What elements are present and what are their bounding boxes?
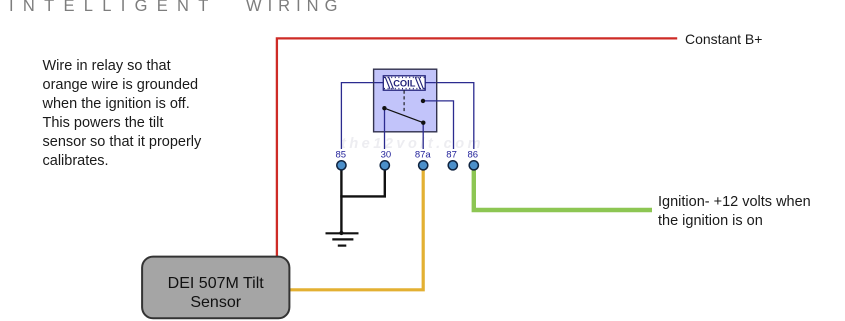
svg-text:87: 87 xyxy=(446,150,457,161)
svg-text:INTELLIGENT: INTELLIGENT xyxy=(9,0,218,15)
wire navy coil horizontal inside relay xyxy=(374,82,436,84)
svg-text:This powers the tilt: This powers the tilt xyxy=(43,115,164,131)
wire navy coil left to pin 85 xyxy=(341,83,374,149)
contact dot pin 87a xyxy=(421,121,425,125)
svg-text:WIRING: WIRING xyxy=(246,0,343,15)
svg-text:30: 30 xyxy=(381,150,392,161)
svg-text:Constant B+: Constant B+ xyxy=(685,31,762,47)
wire yellow 87a to sensor xyxy=(289,168,423,290)
svg-text:Ignition- +12 volts when: Ignition- +12 volts when xyxy=(658,194,811,210)
wire navy pin 30 riser xyxy=(384,108,386,149)
contact dot pin 87 xyxy=(421,99,425,103)
svg-text:orange wire is grounded: orange wire is grounded xyxy=(43,77,199,93)
svg-text:calibrates.: calibrates. xyxy=(43,153,109,169)
label DEI 507M Tilt Sensor xyxy=(168,275,265,311)
relay box U1 xyxy=(374,69,437,132)
label Ignition +12 volts xyxy=(658,194,811,229)
svg-text:86: 86 xyxy=(468,150,479,161)
wire navy coil right to pin 86 xyxy=(436,83,474,149)
contact dot pin 30 xyxy=(382,106,386,110)
pin terminal 86 xyxy=(469,161,478,170)
ground symbol xyxy=(326,231,359,246)
pin terminal 30 xyxy=(380,161,389,170)
armature contact arm 30 to 87a xyxy=(384,108,423,123)
pin terminal 87a xyxy=(419,161,428,170)
svg-text:the12volt.com: the12volt.com xyxy=(341,136,484,152)
wire red constant B+ xyxy=(277,38,677,257)
svg-text:Wire in relay so that: Wire in relay so that xyxy=(43,58,171,74)
wire navy pin 87a riser xyxy=(422,123,424,149)
wire black 30 to ground junction xyxy=(340,168,385,196)
svg-text:87a: 87a xyxy=(415,150,432,161)
pin terminal 85 xyxy=(337,161,346,170)
wire black 85 to ground xyxy=(340,168,342,233)
note text block xyxy=(42,58,203,169)
wire navy pin 87 riser xyxy=(423,101,454,149)
wire green 86 ignition xyxy=(474,168,652,210)
DEI 507M tilt sensor box xyxy=(142,257,289,319)
svg-text:COIL: COIL xyxy=(393,79,416,89)
svg-text:sensor so that it properly: sensor so that it properly xyxy=(43,134,203,150)
svg-text:the ignition is on: the ignition is on xyxy=(658,213,763,229)
pin terminal 87 xyxy=(448,161,457,170)
dashed actuator line xyxy=(403,91,405,113)
svg-text:DEI 507M Tilt: DEI 507M Tilt xyxy=(168,275,265,292)
svg-text:85: 85 xyxy=(336,150,347,161)
coil box with hatched ends xyxy=(383,76,425,90)
svg-text:Sensor: Sensor xyxy=(190,294,241,311)
svg-text:when the ignition is off.: when the ignition is off. xyxy=(42,96,190,112)
